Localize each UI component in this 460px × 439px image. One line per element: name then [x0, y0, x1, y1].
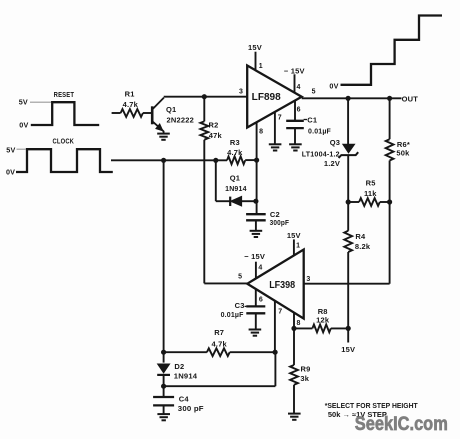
svg-text:OUT: OUT: [402, 94, 419, 103]
svg-text:− 15V: − 15V: [244, 252, 265, 261]
svg-text:Q1: Q1: [166, 105, 176, 114]
svg-text:R9: R9: [301, 364, 311, 373]
svg-text:2N2222: 2N2222: [167, 116, 195, 125]
svg-text:5V: 5V: [19, 98, 28, 107]
svg-text:1: 1: [259, 63, 263, 70]
svg-text:300pF: 300pF: [270, 218, 290, 227]
svg-text:C3: C3: [235, 301, 245, 310]
svg-text:0.01µF: 0.01µF: [221, 310, 244, 319]
svg-text:12k: 12k: [316, 316, 330, 325]
svg-text:47k: 47k: [209, 131, 223, 140]
svg-text:8: 8: [259, 128, 263, 135]
svg-text:6: 6: [259, 297, 263, 304]
svg-text:R3: R3: [230, 138, 240, 147]
svg-text:R2: R2: [209, 121, 219, 130]
svg-text:SeekIC.com: SeekIC.com: [355, 413, 448, 435]
svg-text:8: 8: [296, 320, 300, 327]
svg-text:15V: 15V: [248, 43, 262, 52]
svg-text:RESET: RESET: [54, 90, 75, 99]
svg-text:5: 5: [312, 88, 316, 95]
svg-text:R8: R8: [318, 307, 328, 316]
svg-text:R4: R4: [355, 232, 366, 241]
svg-text:0V: 0V: [6, 167, 15, 176]
svg-text:0V: 0V: [19, 121, 28, 130]
svg-text:7: 7: [278, 309, 282, 316]
svg-text:1N914: 1N914: [225, 184, 247, 193]
svg-text:Q3: Q3: [330, 138, 340, 147]
svg-text:R6*: R6*: [397, 140, 410, 149]
svg-text:0.01µF: 0.01µF: [308, 127, 331, 136]
svg-text:50k: 50k: [396, 149, 410, 158]
svg-text:3k: 3k: [300, 374, 309, 383]
svg-text:LF898: LF898: [252, 92, 281, 103]
svg-text:1: 1: [296, 242, 300, 249]
svg-text:3: 3: [306, 276, 310, 283]
svg-text:4: 4: [297, 84, 301, 91]
svg-text:4.7k: 4.7k: [227, 148, 243, 157]
svg-text:LT1004-1.2: LT1004-1.2: [302, 149, 340, 158]
svg-text:*SELECT FOR STEP HEIGHT: *SELECT FOR STEP HEIGHT: [325, 403, 419, 410]
svg-text:8.2k: 8.2k: [355, 242, 371, 251]
svg-text:300 pF: 300 pF: [178, 404, 204, 413]
svg-text:4: 4: [258, 264, 262, 271]
svg-text:D2: D2: [174, 362, 184, 371]
svg-text:R5: R5: [366, 178, 376, 187]
svg-text:C4: C4: [179, 395, 190, 404]
svg-text:4.7k: 4.7k: [211, 340, 227, 349]
svg-text:15V: 15V: [287, 231, 301, 240]
svg-text:5V: 5V: [6, 146, 15, 155]
svg-text:Q1: Q1: [230, 173, 240, 182]
svg-text:C1: C1: [307, 115, 317, 124]
svg-text:3: 3: [239, 88, 243, 95]
svg-text:11k: 11k: [364, 189, 377, 198]
svg-text:R7: R7: [214, 328, 224, 337]
svg-text:7: 7: [278, 115, 282, 122]
svg-text:R1: R1: [125, 90, 135, 99]
svg-text:− 15V: − 15V: [284, 67, 305, 76]
svg-text:5: 5: [238, 273, 242, 280]
svg-text:6: 6: [297, 107, 301, 114]
svg-text:CLOCK: CLOCK: [53, 136, 75, 145]
svg-text:4.7k: 4.7k: [123, 100, 139, 109]
svg-text:1N914: 1N914: [174, 372, 198, 381]
svg-text:LF398: LF398: [269, 280, 295, 291]
svg-text:15V: 15V: [341, 345, 355, 354]
svg-text:0V: 0V: [329, 81, 338, 90]
svg-text:1.2V: 1.2V: [324, 159, 340, 168]
